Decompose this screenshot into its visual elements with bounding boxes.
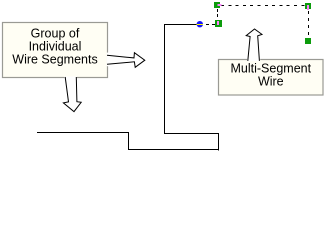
vertex handle C (green)	[305, 3, 311, 9]
vertex handle D (green)	[305, 38, 311, 44]
junction dot (blue)	[197, 21, 203, 27]
wire: left horizontal segment	[37, 24, 219, 151]
callout arrow pointing down at bottom wire	[63, 77, 81, 112]
svg-text:Group of: Group of	[31, 27, 80, 41]
svg-text:Multi-Segment: Multi-Segment	[231, 61, 312, 75]
border gap for right-pointing arrow	[107, 53, 109, 67]
callout box: Multi-Segment Wire	[219, 60, 324, 96]
wire: left step vertical segment	[128, 133, 130, 151]
svg-text:Individual: Individual	[29, 40, 82, 54]
svg-text:Wire Segments: Wire Segments	[12, 53, 97, 67]
wire: middle horizontal segment	[164, 133, 219, 135]
junction highlight (yellow)	[197, 24, 203, 26]
callout arrow pointing right at vertical wire	[107, 53, 145, 68]
border gap for down-pointing arrow	[64, 76, 77, 79]
wire stub at handle B (magenta)	[217, 21, 219, 25]
border gap for up-pointing arrow	[247, 58, 260, 61]
callout box: Group of Individual Wire Segments	[3, 23, 108, 78]
vertex handle B (green)	[215, 20, 222, 27]
wire: top horizontal segment to junction	[164, 24, 197, 26]
svg-text:Wire: Wire	[258, 75, 284, 89]
wire: tall vertical segment	[164, 24, 166, 134]
selected wire: dashed vertical between vertex handles A and B	[217, 9, 219, 19]
selected multi-segment wire: dash from junction to first vertex	[206, 6, 309, 39]
vertex handle A (green)	[214, 2, 220, 8]
selected wire: long dashed horizontal segment	[221, 5, 305, 7]
selected wire: dashed right vertical segment	[308, 11, 310, 38]
wire stub at handle A (magenta)	[218, 4, 222, 6]
wire: bottom horizontal segment	[128, 149, 218, 151]
wire: right vertical stub segment	[218, 133, 220, 151]
wire stub at handle C (magenta)	[307, 5, 309, 10]
callout arrow pointing up at multi-segment wire	[246, 29, 262, 61]
